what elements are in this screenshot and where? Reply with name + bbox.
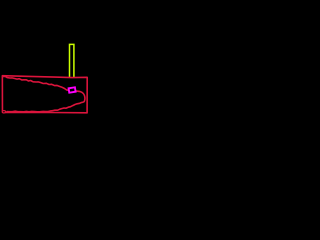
frame (crimson rectangle with corner curl) (2, 76, 87, 113)
frame corner curl loop (2, 111, 5, 113)
chimney (yellow-green rectangle outline on top of frame) (70, 44, 74, 78)
marker box (magenta rotated rectangle) (69, 87, 76, 92)
curve (jagged decaying line inside frame) (3, 76, 85, 112)
